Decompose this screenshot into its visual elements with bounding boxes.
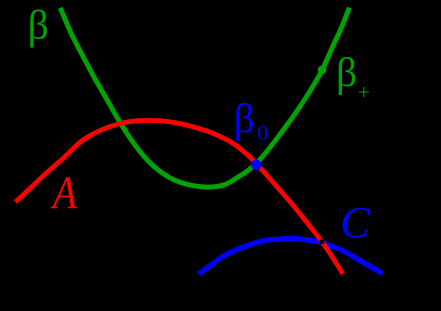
svg-text:β: β: [28, 1, 49, 47]
svg-text:β: β: [234, 95, 255, 141]
svg-text:β: β: [336, 49, 357, 95]
svg-text:A: A: [50, 167, 77, 219]
svg-text:0: 0: [257, 121, 268, 145]
svg-text:C: C: [340, 198, 370, 247]
svg-text:+: +: [358, 80, 370, 104]
